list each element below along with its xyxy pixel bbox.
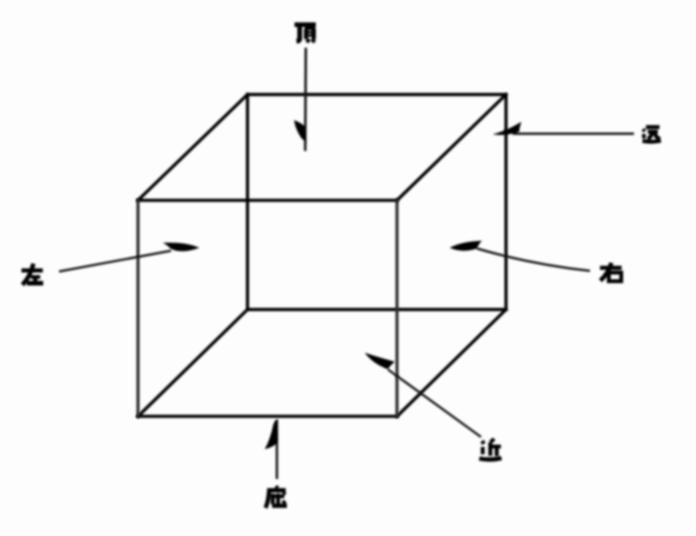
arrow shaft: top (from label 顶 down into top face) bbox=[304, 48, 307, 151]
cube edge: back right vertical bbox=[504, 95, 507, 310]
label 顶 (top) bbox=[295, 25, 316, 43]
arrow shaft: far (from 远 label leftwards) bbox=[513, 133, 635, 135]
label 底 (bottom) bbox=[266, 486, 287, 508]
arrowhead: bottom arrow (points up, fat foot barb on left) bbox=[265, 419, 278, 449]
arrowhead: top arrow (points down, barb on left) bbox=[294, 120, 307, 142]
label 左 (left) bbox=[22, 264, 44, 285]
arrowhead: left arrow (points right, swoosh wing) bbox=[163, 243, 200, 252]
label 远 (far) bbox=[643, 127, 661, 142]
cube edge: top-right connector bbox=[397, 95, 506, 201]
cube edge: front left vertical bbox=[136, 200, 139, 416]
cube edge: bottom-left connector bbox=[138, 310, 248, 417]
arrowhead: far arrow (points left at back-right edge) bbox=[493, 122, 522, 135]
arrow shaft: left (from 左 label into left face) bbox=[59, 251, 171, 272]
arrowhead: right arrow (points left, swoosh wing) bbox=[450, 241, 482, 251]
cube edge: front top bbox=[138, 199, 397, 202]
cube edge: back bottom bbox=[248, 308, 507, 311]
cube edge: back top bbox=[248, 93, 507, 96]
arrow shaft: near (from 近 label up-left into front face) bbox=[388, 370, 481, 438]
cube edge: back left vertical bbox=[246, 95, 249, 310]
arrow shaft: bottom (from 底 label up to bottom edge) bbox=[276, 420, 278, 480]
cube edge: front right vertical bbox=[395, 200, 398, 416]
label 近 (near) bbox=[479, 439, 501, 460]
cube edge: top-left connector bbox=[138, 95, 248, 201]
arrowhead: near arrow (points up-left, swoosh wing) bbox=[365, 353, 395, 370]
arrow shaft: right (from 右 label into right face) bbox=[477, 249, 590, 271]
label 右 (right) bbox=[600, 263, 622, 281]
cube edge: front bottom bbox=[138, 415, 397, 418]
cube edge: bottom-right connector bbox=[397, 310, 506, 417]
